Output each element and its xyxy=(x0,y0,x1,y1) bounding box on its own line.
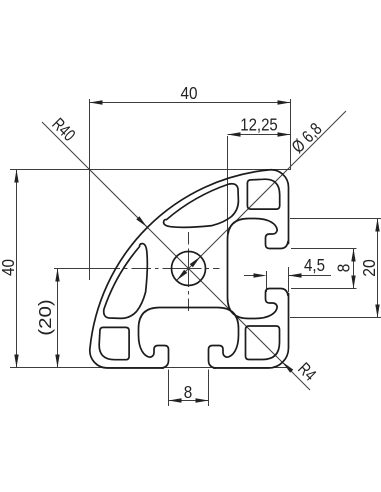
arrowhead 40-left top xyxy=(14,170,18,183)
svg-text:8: 8 xyxy=(334,264,354,273)
bottom-right square cavity xyxy=(246,326,280,360)
svg-text:20: 20 xyxy=(359,259,379,277)
extension line left tangent x=89 xyxy=(89,99,91,280)
arrowhead 12,25 left xyxy=(228,132,241,136)
svg-text:12,25: 12,25 xyxy=(240,115,278,135)
outer contour of profile xyxy=(90,170,289,368)
extension line chamber depth x=227.5 xyxy=(227,136,229,244)
top-right square cavity xyxy=(247,179,279,209)
arrowhead R4 on corner xyxy=(281,360,293,372)
dimension 8 bottom slot opening xyxy=(169,370,209,407)
arrowhead 4,5 left xyxy=(254,273,267,277)
svg-text:Ø 6,8: Ø 6,8 xyxy=(287,119,325,157)
dimension 8 right side slot opening xyxy=(291,249,357,289)
arrowhead 20-right top xyxy=(375,219,379,232)
arrowhead 40-left bottom xyxy=(14,355,18,368)
arrowhead (20) top xyxy=(55,269,59,282)
arrowhead 20-right bottom xyxy=(375,305,379,318)
centerline vertical xyxy=(188,232,190,311)
svg-text:4,5: 4,5 xyxy=(304,255,325,275)
arrowhead 40-top left xyxy=(90,100,103,104)
svg-text:8: 8 xyxy=(184,382,193,402)
arrowhead 8-bottom right xyxy=(196,398,209,402)
svg-text:40: 40 xyxy=(0,259,18,276)
dimension 40 left xyxy=(16,170,18,368)
bottom-left square cavity xyxy=(99,327,129,359)
arrowhead (20) bottom xyxy=(55,355,59,368)
dimension 4,5 right slot lip xyxy=(244,267,331,292)
arrowhead R40 on arc xyxy=(136,216,148,228)
center bore xyxy=(172,252,206,286)
right T-slot and chamber cavity xyxy=(228,219,289,319)
bottom T-slot and chamber cavity xyxy=(139,308,239,369)
svg-text:R4: R4 xyxy=(294,358,320,384)
dimension 20 right side xyxy=(290,219,381,318)
left elongated cavity xyxy=(104,244,148,319)
extension line top edge y=169 xyxy=(10,99,291,368)
dimension 40 top xyxy=(90,102,291,104)
svg-text:40: 40 xyxy=(181,83,198,103)
dimension (20) left xyxy=(57,269,59,368)
arrowhead 40-top right xyxy=(278,100,291,104)
leader diameter 6,8 anti-diagonal xyxy=(177,111,347,281)
extension line bottom edge y=368 xyxy=(10,367,289,369)
arrowhead diameter lower xyxy=(175,270,187,282)
leader R40 main diagonal xyxy=(42,122,310,390)
svg-text:R40: R40 xyxy=(48,114,79,145)
arrowhead diameter upper xyxy=(190,255,202,267)
arrowhead 8-right bottom xyxy=(351,276,355,289)
upper elongated cavity xyxy=(164,184,239,228)
arrowhead 4,5 right xyxy=(289,273,302,277)
centerline horizontal xyxy=(54,232,220,311)
svg-text:(20): (20) xyxy=(35,299,55,336)
arrowhead 12,25 right xyxy=(278,132,291,136)
arrowhead 8-bottom left xyxy=(169,398,182,402)
extension line right edge x=290 xyxy=(290,99,292,170)
arrowhead 8-right top xyxy=(351,249,355,262)
dimension 12,25 top right xyxy=(228,134,291,136)
